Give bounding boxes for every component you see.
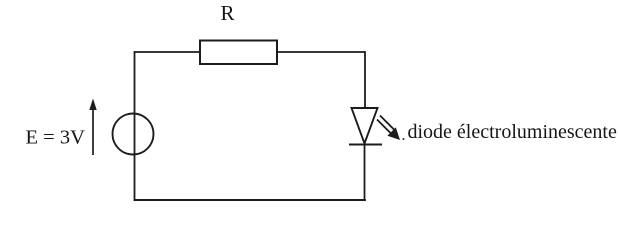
- voltage source E1: [113, 114, 154, 155]
- speck before label: [403, 138, 405, 140]
- wire bottom: [134, 199, 366, 201]
- wire top: [135, 51, 366, 53]
- label diode électroluminescente: [408, 121, 617, 143]
- LED D1 triangle: [352, 108, 378, 144]
- label E = 3V: [26, 127, 86, 149]
- wire right upper: [364, 51, 366, 108]
- LED D1 cathode bar: [349, 144, 382, 146]
- svg-text:diode électroluminescente: diode électroluminescente: [408, 121, 617, 143]
- wire right lower: [364, 144, 366, 202]
- voltage arrow: [89, 99, 96, 156]
- LED emission arrows: [377, 116, 400, 141]
- svg-text:R: R: [221, 1, 235, 25]
- resistor R: [200, 41, 277, 65]
- svg-text:E = 3V: E = 3V: [26, 127, 86, 149]
- wire left: [134, 51, 136, 201]
- label R: [221, 1, 235, 25]
